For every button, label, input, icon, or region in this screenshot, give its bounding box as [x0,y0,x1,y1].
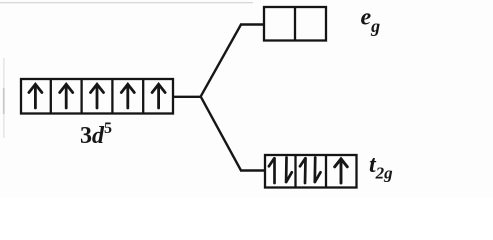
label eg [361,5,381,37]
label t2g [369,152,393,183]
electron arrow up, 3d cell 2 [60,84,73,108]
wire: t2g level horizontal [240,169,265,171]
electron up harpoon, t2g cell 1 [269,158,275,183]
electron arrow up, 3d cell 3 [91,84,104,108]
orbital box row 3d (5 cells) [21,79,173,114]
wire: 3d row to junction [174,96,202,98]
label 3d^5 [80,120,112,149]
electron down harpoon, t2g cell 1 [286,158,292,183]
electron up harpoon, t2g cell 2 [300,158,306,183]
orbital box row t2g (3 cells) [265,155,357,188]
wire: junction to eg level (diagonal up) [201,25,242,97]
wire: eg level horizontal [240,23,264,25]
orbital box row eg (2 cells, empty) [264,7,326,41]
electron arrow up, 3d cell 1 [29,84,42,108]
electron arrow up, 3d cell 5 [152,84,165,108]
electron down harpoon, t2g cell 2 [315,158,321,183]
electron arrow up, 3d cell 4 [121,84,134,108]
scan artifact: faint left edge line [3,58,5,138]
svg-text:3d5: 3d5 [80,120,112,149]
scan artifact: faint top line [0,2,253,3]
wire: junction to t2g level (diagonal down) [201,96,242,170]
electron arrow up, t2g cell 3 [335,159,348,183]
svg-text:t2g: t2g [369,152,393,183]
svg-text:eg: eg [361,5,381,37]
